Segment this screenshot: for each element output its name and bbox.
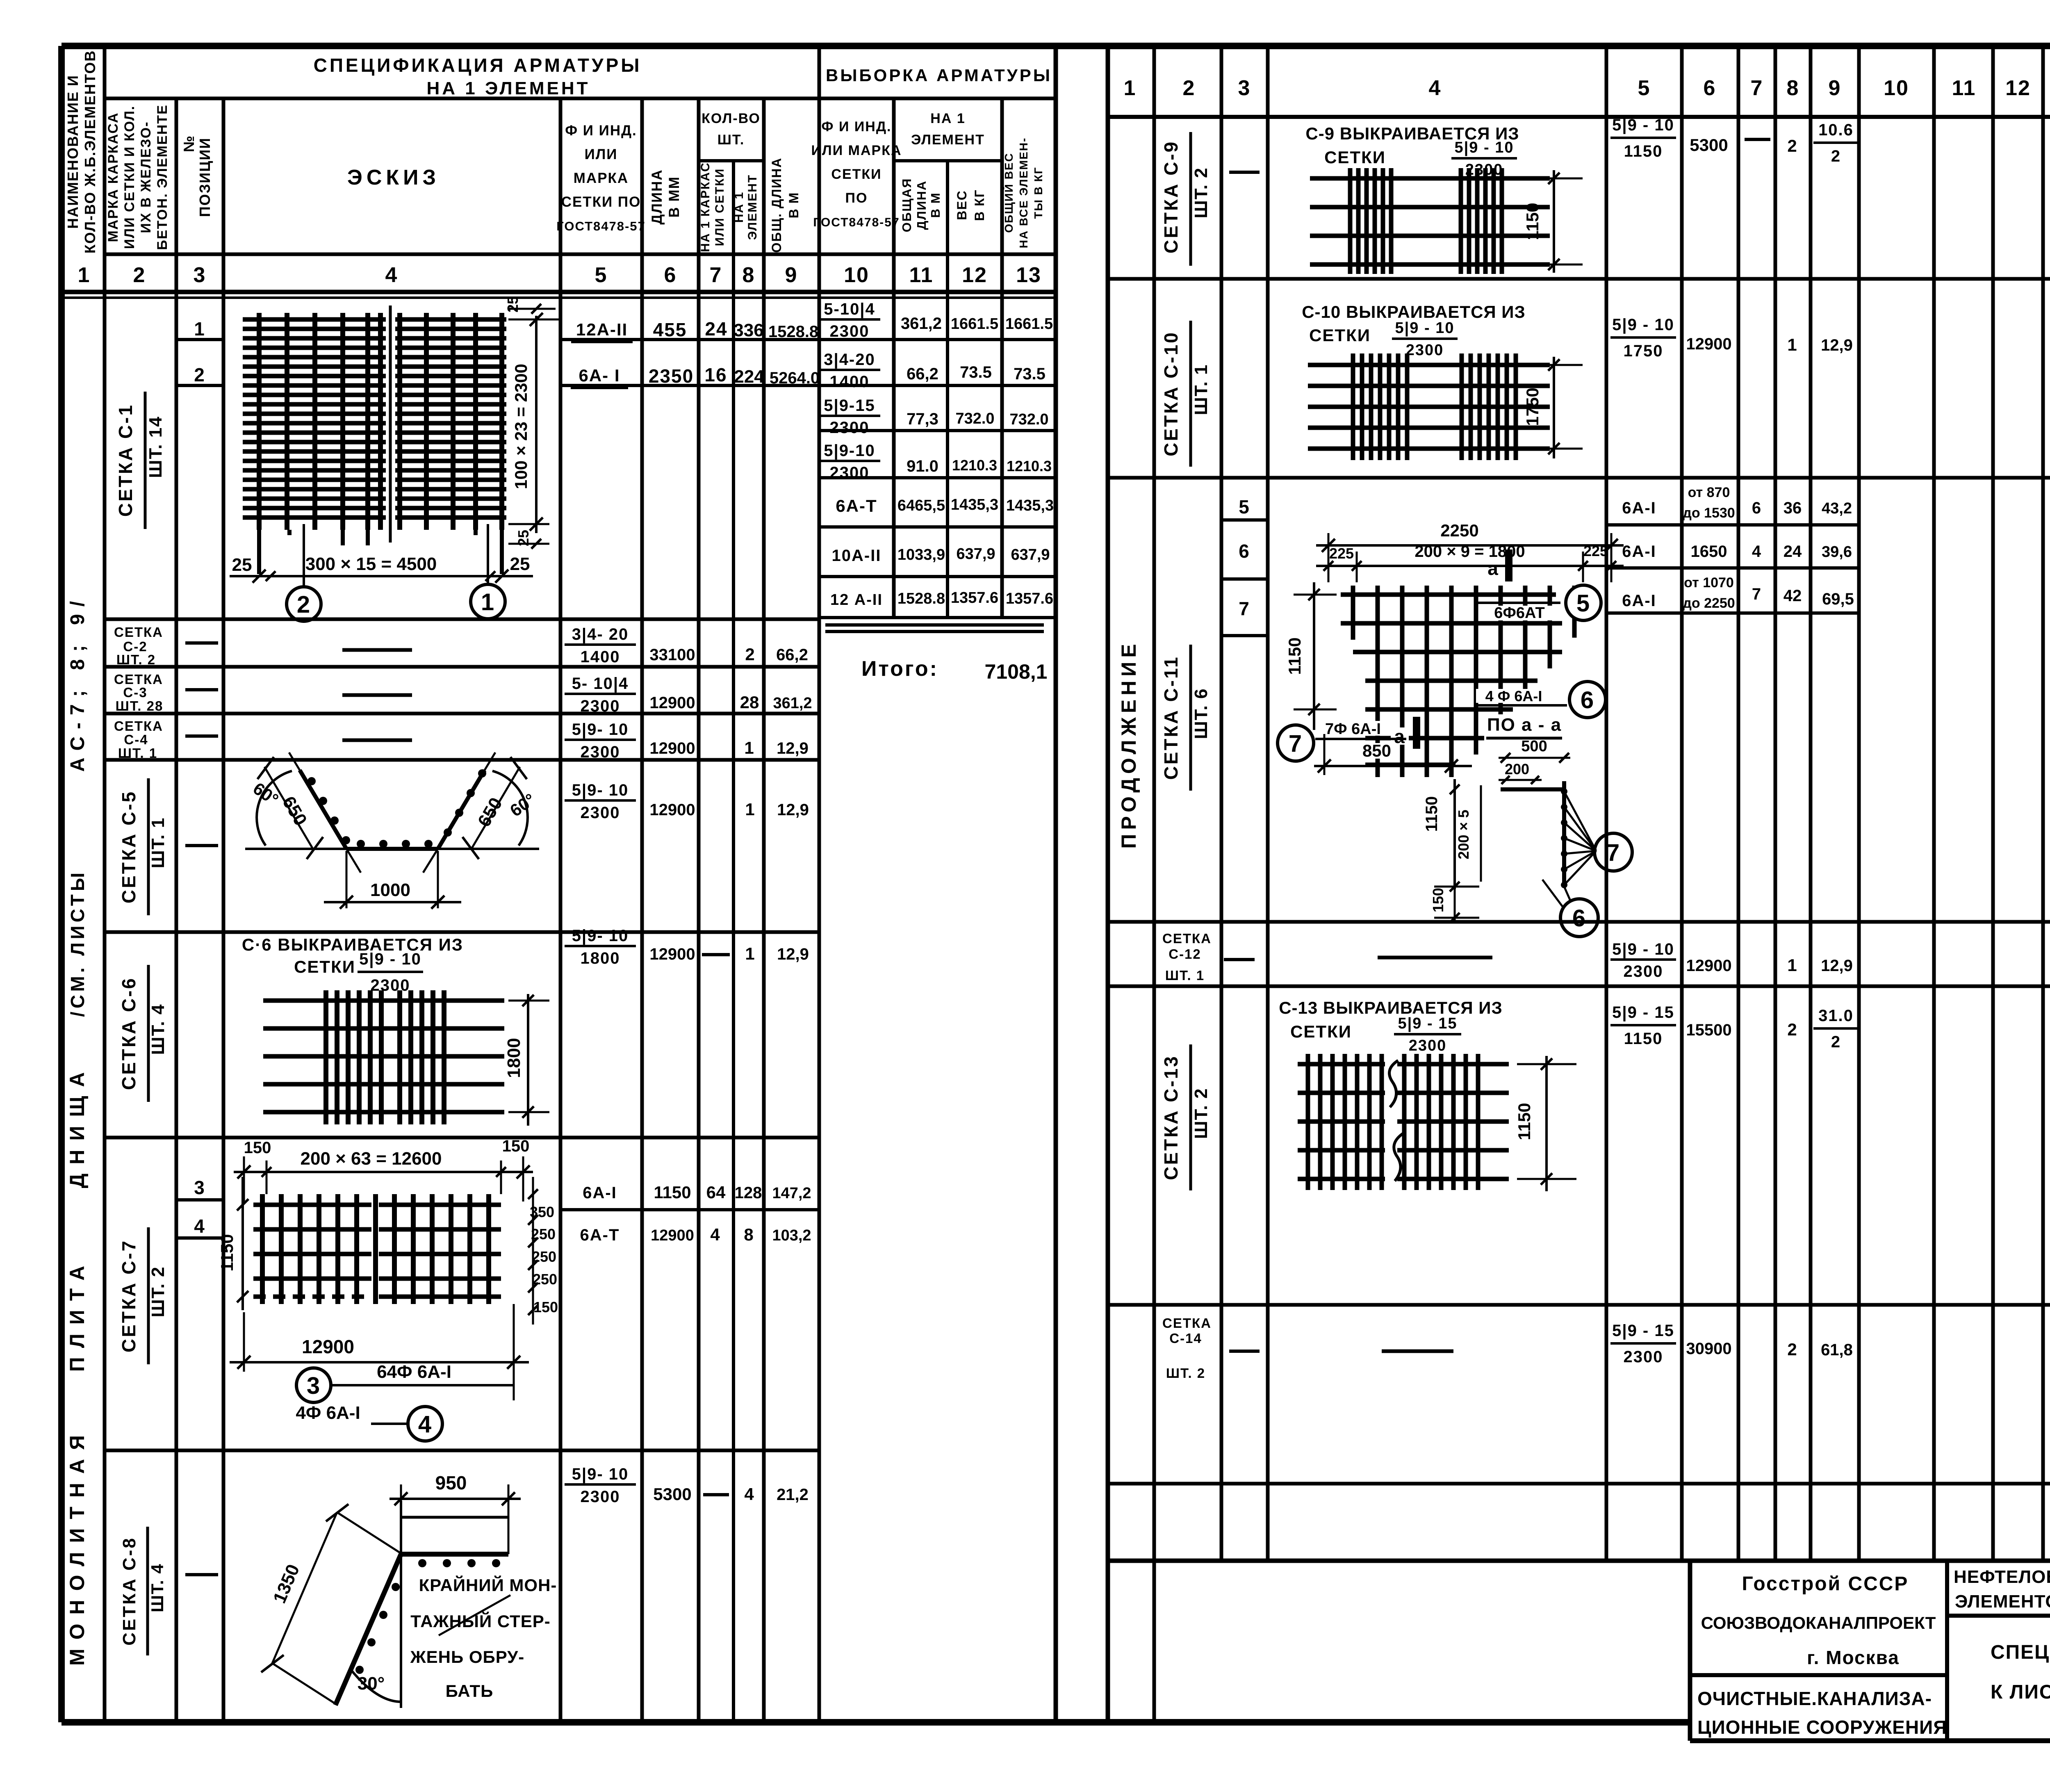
left table row line C-4|C-5 — [105, 758, 819, 762]
svg-text:6А-I: 6А-I — [1622, 499, 1656, 517]
sketch C-7 top dim extensions — [244, 1156, 523, 1202]
sketch C-6 mesh horizontal bars — [263, 1001, 504, 1112]
sketch C-11 section dim 200x5 — [1455, 785, 1481, 882]
svg-text:12,9: 12,9 — [777, 945, 809, 963]
svg-text:4: 4 — [418, 1411, 432, 1438]
svg-text:4: 4 — [1429, 76, 1442, 100]
left table column line 1|2 — [103, 46, 107, 1722]
right table left edge — [1106, 46, 1110, 1722]
sketch C-11 dim 1150 left — [1285, 582, 1337, 730]
svg-text:ШТ. 6: ШТ. 6 — [1191, 688, 1211, 739]
svg-text:5|9- 10: 5|9- 10 — [572, 927, 629, 945]
right table column line 7|8 — [1774, 46, 1777, 1561]
left table column line 3|4 — [222, 98, 225, 1722]
svg-text:С-13 ВЫКРАИВАЕТСЯ ИЗ: С-13 ВЫКРАИВАЕТСЯ ИЗ — [1279, 998, 1503, 1017]
sketch C-13 break squiggle — [1389, 1060, 1403, 1181]
sketch C-5 rebar dots — [307, 769, 486, 848]
svg-text:2: 2 — [1183, 76, 1196, 100]
svg-text:СЕТКИ: СЕТКИ — [831, 166, 881, 182]
right table column line 8|9 — [1809, 46, 1813, 1561]
right table column line 3|4 — [1266, 46, 1270, 1561]
sketch C-8 note line1 — [419, 1575, 557, 1595]
left table column line 7|8 — [732, 161, 735, 1722]
sketch C-11 callout circle 5 — [1566, 585, 1601, 620]
svg-text:3: 3 — [194, 1177, 205, 1198]
svg-text:С·6 ВЫКРАИВАЕТСЯ ИЗ: С·6 ВЫКРАИВАЕТСЯ ИЗ — [242, 935, 463, 954]
svg-text:5300: 5300 — [1690, 135, 1728, 155]
pos number 4 — [194, 1215, 205, 1237]
left table line above numbers row — [105, 253, 1056, 256]
left table column line 6|7 — [697, 98, 701, 1722]
left table row line C-2|C-3 — [105, 665, 819, 669]
svg-text:500: 500 — [1521, 738, 1547, 755]
header eskiz — [347, 166, 440, 189]
C-8 row data — [565, 1465, 809, 1506]
right table column line 6|7 — [1737, 46, 1740, 1561]
C-9 row data — [1610, 116, 1859, 165]
svg-text:25: 25 — [510, 554, 530, 574]
svg-text:15500: 15500 — [1686, 1021, 1731, 1039]
col2 label setka C-14 — [1162, 1316, 1212, 1381]
svg-text:5: 5 — [1638, 76, 1651, 100]
stamp outer left border — [1688, 1561, 1692, 1741]
svg-text:СЕТКИ ПО: СЕТКИ ПО — [561, 194, 641, 210]
stamp text soyuzvodokanalproekt — [1701, 1613, 1936, 1632]
svg-text:150: 150 — [244, 1139, 271, 1157]
col2 label setka C-9 — [1160, 132, 1211, 266]
C-1 row1 data — [571, 318, 818, 342]
svg-text:33100: 33100 — [649, 646, 695, 664]
sketch C-11 dim 850 — [1314, 734, 1472, 775]
svg-text:ГОСТ8478-57: ГОСТ8478-57 — [556, 219, 646, 233]
svg-text:СОЮЗВОДОКАНАЛПРОЕКТ: СОЮЗВОДОКАНАЛПРОЕКТ — [1701, 1613, 1936, 1632]
svg-text:В КГ: В КГ — [972, 189, 987, 221]
svg-text:1: 1 — [481, 589, 495, 616]
sketch C-1 dim 100x23=2300 rotated — [511, 364, 531, 489]
vyborka rowC — [819, 397, 1049, 437]
svg-text:8: 8 — [1787, 76, 1799, 100]
svg-text:2: 2 — [1831, 1033, 1841, 1051]
col3 dash C-2 — [185, 641, 218, 645]
svg-text:С-14: С-14 — [1169, 1331, 1202, 1346]
svg-text:С-10 ВЫКРАИВАЕТСЯ ИЗ: С-10 ВЫКРАИВАЕТСЯ ИЗ — [1302, 302, 1526, 321]
svg-text:1400: 1400 — [830, 373, 870, 391]
svg-text:2: 2 — [1787, 1020, 1797, 1039]
svg-text:250: 250 — [531, 1226, 556, 1243]
svg-text:7108,1: 7108,1 — [985, 660, 1048, 683]
svg-text:ПЛИТА: ПЛИТА — [66, 1257, 89, 1372]
sketch C-8 slanted bar — [335, 1554, 401, 1705]
col2 label setka C-1 — [115, 392, 166, 529]
svg-text:66,2: 66,2 — [776, 646, 808, 664]
left table row line C-5|C-6 — [105, 930, 819, 934]
svg-text:39,6: 39,6 — [1822, 543, 1852, 561]
right pos number 6 — [1239, 540, 1250, 562]
svg-text:361,2: 361,2 — [901, 315, 942, 333]
svg-text:6: 6 — [1581, 687, 1594, 714]
C-1 row2 data — [571, 364, 820, 388]
sketch C-10 mesh horizontal bars — [1308, 365, 1550, 449]
svg-text:300 × 15 = 4500: 300 × 15 = 4500 — [305, 554, 437, 574]
svg-text:1150: 1150 — [1285, 637, 1304, 675]
svg-text:ВЫБОРКА АРМАТУРЫ: ВЫБОРКА АРМАТУРЫ — [826, 66, 1052, 85]
svg-text:НАИМЕНОВАНИЕ И: НАИМЕНОВАНИЕ И — [64, 75, 81, 229]
svg-text:5|9 - 10: 5|9 - 10 — [1395, 319, 1455, 337]
svg-text:1: 1 — [1787, 955, 1797, 975]
svg-text:350: 350 — [530, 1204, 554, 1220]
stamp horizontal line under project title — [1947, 1614, 2050, 1618]
sketch C-11 section lines to circle 6 — [1542, 880, 1570, 907]
sketch C-8 top bar — [401, 1552, 508, 1557]
svg-text:7: 7 — [1289, 730, 1303, 757]
svg-text:6: 6 — [1752, 499, 1762, 517]
svg-text:ПО: ПО — [845, 190, 868, 206]
vyborka total double underline — [825, 625, 1044, 632]
left table column line 9|10 — [818, 46, 821, 1722]
svg-text:12900: 12900 — [1686, 957, 1731, 975]
pos dash C-8 — [185, 1573, 218, 1576]
sketch C-11 mesh horizontal bars — [1341, 595, 1562, 765]
header col12 rotated — [954, 189, 987, 221]
svg-text:СЕТКА: СЕТКА — [1162, 1316, 1212, 1331]
svg-text:МАРКА КАРКАСА: МАРКА КАРКАСА — [105, 112, 121, 242]
svg-text:12900: 12900 — [649, 801, 695, 819]
svg-text:от 1070: от 1070 — [1684, 575, 1734, 590]
svg-text:5|9 - 15: 5|9 - 15 — [1398, 1015, 1458, 1032]
svg-text:1150: 1150 — [1515, 1103, 1534, 1140]
svg-text:2300: 2300 — [581, 743, 620, 761]
svg-text:1750: 1750 — [1624, 342, 1663, 360]
sketch C-1 dim 25 left — [232, 555, 252, 575]
stamp vertical divider company|middle — [1945, 1561, 1949, 1741]
svg-text:3: 3 — [194, 263, 206, 287]
svg-text:ДНИЩА: ДНИЩА — [66, 1063, 89, 1188]
svg-text:200 × 5: 200 × 5 — [1455, 809, 1472, 859]
right pos dash C-14 — [1229, 1350, 1260, 1353]
svg-text:200 × 63 = 12600: 200 × 63 = 12600 — [301, 1149, 442, 1169]
svg-text:2: 2 — [1787, 1340, 1797, 1359]
vyborka rowB — [819, 351, 1045, 391]
svg-text:6А-Т: 6А-Т — [580, 1226, 620, 1244]
svg-text:1357.6: 1357.6 — [951, 589, 998, 606]
svg-text:4: 4 — [710, 1225, 720, 1244]
right table column line 12|13 — [2041, 46, 2045, 1561]
svg-text:ШТ. 28: ШТ. 28 — [116, 698, 164, 714]
C-1 data line under row pos2 — [560, 384, 819, 387]
sketch C-7 mesh horizontal bars right — [379, 1205, 501, 1297]
svg-text:а: а — [1487, 558, 1499, 579]
pos cell line under 4 — [176, 1236, 223, 1240]
svg-text:2300: 2300 — [830, 419, 870, 437]
sketch C-11 callout circle 7 — [1278, 725, 1314, 761]
sketch C-1 mesh vertical bars right half — [400, 313, 502, 530]
sketch C-7 dim 1150 left — [217, 1177, 248, 1310]
vyborka rowD — [819, 442, 1052, 482]
header na 1 element — [911, 111, 985, 148]
sketch C-1 callout circle 1 — [471, 584, 505, 619]
svg-text:СЕТКА С-11: СЕТКА С-11 — [1160, 655, 1182, 780]
svg-text:3|4- 20: 3|4- 20 — [572, 625, 629, 643]
svg-text:2: 2 — [1831, 147, 1841, 165]
sketch C-8 note line2 — [410, 1611, 551, 1631]
svg-text:/СМ. ЛИСТЫ: /СМ. ЛИСТЫ — [67, 869, 88, 1017]
sketch C-5 angle arc right — [492, 771, 539, 846]
sketch C-1 mesh horizontal bars right half — [395, 319, 506, 518]
left table na 1 element split line — [894, 159, 1002, 162]
svg-text:11: 11 — [909, 263, 934, 287]
sketch C-1 callout circle 2 — [287, 587, 321, 621]
sketch C-11 callout 6f6AT — [1476, 603, 1560, 622]
svg-text:1650: 1650 — [1691, 543, 1727, 561]
svg-text:66,2: 66,2 — [907, 365, 938, 383]
sketch C-11 section dim 1150 left — [1423, 779, 1460, 891]
svg-text:6: 6 — [1704, 76, 1716, 100]
svg-text:СЕТКА С-7: СЕТКА С-7 — [118, 1239, 139, 1352]
stamp text ochistnye — [1697, 1688, 1932, 1709]
col2 label setka C-5 — [118, 778, 168, 915]
right pos dash C-9 — [1229, 171, 1260, 174]
sketch C-6 caption line1 — [242, 935, 463, 954]
svg-text:2300: 2300 — [830, 464, 870, 482]
svg-text:В М: В М — [786, 192, 801, 219]
svg-text:224: 224 — [734, 367, 764, 387]
sketch C-6 dim 1800 — [504, 994, 549, 1126]
col4 dash C-3 — [342, 693, 412, 697]
sketch C-1 callout leader to circle 1 — [487, 524, 489, 585]
col2 label setka C-6 — [118, 965, 168, 1102]
svg-text:ШТ. 1: ШТ. 1 — [148, 817, 168, 868]
svg-text:КРАЙНИЙ МОН-: КРАЙНИЙ МОН- — [419, 1575, 557, 1595]
svg-text:7Ф 6А-I: 7Ф 6А-I — [1325, 720, 1381, 738]
svg-text:5264.0: 5264.0 — [770, 369, 820, 387]
col2 label setka C-12 — [1162, 931, 1212, 983]
col2 label setka C-13 — [1160, 1044, 1211, 1190]
svg-text:12: 12 — [962, 263, 987, 287]
svg-text:МОНОЛИТНАЯ: МОНОЛИТНАЯ — [66, 1426, 89, 1666]
svg-text:1357.6: 1357.6 — [1006, 590, 1053, 607]
svg-text:БЕТОН. ЭЛЕМЕНТЕ: БЕТОН. ЭЛЕМЕНТЕ — [155, 104, 170, 250]
svg-text:ВЕС: ВЕС — [954, 190, 969, 220]
sketch C-8 dim 950 — [389, 1472, 521, 1554]
stamp text gosstroy — [1742, 1573, 1909, 1595]
sketch C-5 right slope extension — [423, 752, 495, 873]
svg-text:2: 2 — [133, 263, 146, 287]
svg-text:30°: 30° — [358, 1673, 385, 1694]
svg-text:12900: 12900 — [649, 739, 695, 757]
svg-text:2300: 2300 — [581, 804, 620, 822]
svg-text:ШТ. 2: ШТ. 2 — [148, 1266, 168, 1317]
sketch C-11 dim 2250 — [1316, 521, 1624, 552]
svg-text:4: 4 — [744, 1484, 754, 1504]
svg-text:С-4: С-4 — [124, 732, 148, 747]
col3 dash C-4 — [185, 734, 218, 738]
right pos number 7 — [1239, 598, 1250, 619]
svg-text:2300: 2300 — [1624, 962, 1663, 980]
svg-text:5: 5 — [1576, 590, 1590, 617]
sketch C-10 mesh vertical bars right cluster — [1462, 353, 1516, 460]
C-7 row2 data — [580, 1225, 811, 1244]
header col10 — [811, 119, 902, 229]
left table kol-vo sht split line — [699, 159, 764, 162]
svg-text:10.6: 10.6 — [1818, 121, 1854, 139]
right table row line C-9|C-10 — [1108, 277, 2050, 281]
svg-text:850: 850 — [1362, 741, 1391, 760]
sketch C-8 note line3 — [410, 1647, 525, 1667]
svg-text:5|9-15: 5|9-15 — [824, 397, 875, 415]
svg-text:2300: 2300 — [581, 1488, 620, 1506]
svg-text:К ЛИСТАМ 7; 8; 9; 10: К ЛИСТАМ 7; 8; 9; 10; 11. — [1991, 1681, 2050, 1703]
sketch C-11 section title po a-a — [1485, 714, 1564, 738]
sketch C-13 mesh vertical bars left cluster — [1308, 1054, 1382, 1190]
left table column line 5|6 — [640, 98, 644, 1722]
svg-text:10: 10 — [844, 263, 869, 287]
svg-text:4: 4 — [1752, 543, 1762, 561]
stamp text moscow — [1807, 1647, 1900, 1668]
sketch C-11 section mark a bottom — [1391, 717, 1417, 749]
sketch C-6 caption fraction — [358, 950, 423, 994]
vyborka rowG — [830, 589, 1053, 609]
svg-text:12900: 12900 — [649, 694, 695, 712]
svg-text:732.0: 732.0 — [955, 410, 994, 427]
sketch C-1 protruding rod ends — [259, 530, 502, 574]
header col2 rotated — [105, 104, 170, 250]
svg-text:3: 3 — [307, 1372, 321, 1399]
svg-text:СЕТКА: СЕТКА — [114, 625, 163, 640]
sheet frame left border — [58, 46, 65, 1722]
svg-text:1661.5: 1661.5 — [951, 315, 998, 333]
right table column line 2|3 — [1220, 46, 1223, 1561]
right table row line C-11|C-12 — [1108, 920, 2050, 924]
sketch C-8 plate top line — [401, 1516, 508, 1519]
stamp text specifikaciya — [1991, 1642, 2050, 1663]
svg-text:1: 1 — [1124, 76, 1137, 100]
svg-text:5|9 - 15: 5|9 - 15 — [1612, 1003, 1674, 1021]
right table column numbers row — [1124, 76, 2050, 100]
svg-text:СЕТКИ: СЕТКИ — [294, 957, 355, 976]
svg-text:6Ф6АТ: 6Ф6АТ — [1494, 604, 1544, 622]
vyborka row line 1 — [819, 338, 1056, 341]
C-11 row3 data — [1622, 575, 1854, 611]
svg-text:1: 1 — [745, 800, 755, 819]
svg-text:до 1530: до 1530 — [1683, 505, 1735, 521]
svg-text:1033,9: 1033,9 — [897, 546, 945, 563]
header col6 rotated — [649, 169, 682, 224]
left table column line 4|5 — [559, 98, 563, 1722]
svg-text:6А-Т: 6А-Т — [836, 496, 877, 515]
svg-text:1000: 1000 — [370, 880, 410, 900]
left table row line C-3|C-4 — [105, 712, 819, 716]
svg-text:СЕТКА: СЕТКА — [114, 718, 163, 734]
svg-text:В М: В М — [928, 192, 943, 218]
title specification — [314, 55, 642, 98]
svg-text:24: 24 — [1783, 543, 1802, 561]
left table row line C-6|C-7 — [105, 1136, 819, 1140]
sketch C-7 dim 200x63=12600 — [301, 1149, 442, 1169]
svg-text:1150: 1150 — [1624, 1030, 1663, 1048]
svg-text:ОБЩИЙ ВЕС: ОБЩИЙ ВЕС — [1002, 153, 1015, 233]
col2 label setka C-4 — [114, 718, 163, 761]
svg-text:12900: 12900 — [649, 945, 695, 963]
header col3 rotated — [180, 135, 213, 217]
svg-text:1150: 1150 — [1423, 796, 1441, 832]
stamp bottom border — [1690, 1738, 2050, 1743]
svg-text:ЖЕНЬ ОБРУ-: ЖЕНЬ ОБРУ- — [410, 1647, 525, 1667]
svg-text:5|9- 10: 5|9- 10 — [572, 720, 629, 739]
sketch C-1 right dimension line — [508, 313, 562, 533]
svg-text:СЕТКА С-1: СЕТКА С-1 — [115, 404, 136, 517]
svg-text:3: 3 — [1238, 76, 1251, 100]
C-3 row data — [565, 675, 812, 715]
svg-text:10: 10 — [1884, 76, 1909, 100]
sketch C-7 top dimension line — [234, 1165, 533, 1179]
svg-text:ИЛИ СЕТКИ: ИЛИ СЕТКИ — [713, 168, 727, 246]
svg-text:12900: 12900 — [1686, 335, 1731, 353]
right table column line 1|2 — [1153, 46, 1156, 1722]
svg-text:5|9 - 10: 5|9 - 10 — [1612, 316, 1674, 334]
svg-text:2: 2 — [1787, 136, 1797, 155]
sketch C-1 mesh vertical bars left half — [259, 313, 380, 530]
svg-text:ДЛИНА: ДЛИНА — [649, 169, 665, 224]
svg-text:3|4-20: 3|4-20 — [824, 351, 875, 369]
sketch C-10 dim 1750 — [1523, 357, 1583, 458]
svg-text:1528.8: 1528.8 — [768, 323, 818, 341]
sketch C-6 mesh vertical bars right cluster — [400, 990, 444, 1124]
sheet frame top border — [61, 43, 2050, 49]
sketch C-11 section mark a top — [1487, 549, 1509, 581]
svg-text:69,5: 69,5 — [1822, 590, 1854, 608]
right table column line 10|11 — [1932, 46, 1936, 1561]
sketch C-11 dim 225-1800-225 — [1316, 533, 1624, 582]
svg-text:9: 9 — [1829, 76, 1841, 100]
sketch C-11 callout circle 6 — [1569, 682, 1606, 718]
svg-text:ТАЖНЫЙ СТЕР-: ТАЖНЫЙ СТЕР- — [410, 1611, 551, 1631]
svg-text:1150: 1150 — [1624, 142, 1663, 160]
svg-text:25: 25 — [232, 555, 252, 575]
vyborka itogo — [861, 657, 1047, 683]
sketch C-6 mesh vertical bars left cluster — [326, 990, 381, 1124]
sketch C-1 cut seam line — [389, 306, 392, 543]
svg-text:128: 128 — [735, 1184, 762, 1202]
svg-text:ДЛИНА: ДЛИНА — [914, 180, 929, 230]
col2 label setka C-7 — [118, 1227, 168, 1364]
sketch C-7 callout circle 4 — [408, 1407, 442, 1441]
svg-text:СЕТКИ: СЕТКИ — [1290, 1022, 1352, 1041]
sketch C-9 caption — [1305, 124, 1519, 178]
svg-text:ОБЩАЯ: ОБЩАЯ — [900, 178, 914, 233]
svg-text:36: 36 — [1783, 499, 1802, 517]
sketch C-1 dim 25 right — [510, 554, 530, 574]
svg-text:73.5: 73.5 — [1014, 365, 1045, 383]
right table column line 5|6 — [1680, 46, 1684, 1561]
svg-text:732.0: 732.0 — [1009, 411, 1048, 428]
header col5 — [556, 123, 646, 233]
sketch C-6 caption setki — [294, 957, 355, 976]
sketch C-7 dim 150 right — [502, 1137, 530, 1155]
svg-text:6465,5: 6465,5 — [897, 497, 945, 514]
svg-text:12,9: 12,9 — [777, 801, 809, 819]
pos cell line under 1 — [176, 338, 223, 341]
svg-text:СЕТКА С-13: СЕТКА С-13 — [1160, 1055, 1182, 1180]
vyborka row line 3 — [819, 429, 1056, 432]
header col13 rotated — [1002, 137, 1045, 249]
svg-text:ЦИОННЫЕ СООРУЖЕНИЯ: ЦИОННЫЕ СООРУЖЕНИЯ — [1697, 1717, 1947, 1738]
svg-text:5|9 - 10: 5|9 - 10 — [1612, 940, 1674, 958]
C-12 row data — [1610, 940, 1853, 980]
left table column line 8|9 — [762, 98, 766, 1722]
sketch C-7 bottom dim 12900 — [230, 1304, 529, 1372]
svg-text:30900: 30900 — [1686, 1340, 1731, 1358]
svg-text:4 Ф 6А-I: 4 Ф 6А-I — [1485, 688, 1542, 704]
